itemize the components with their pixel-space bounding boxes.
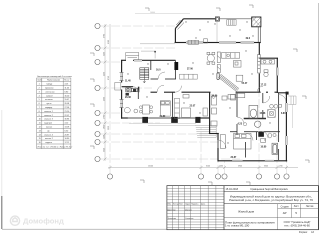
- svg-text:13: 13: [39, 130, 41, 132]
- stair newel pill: [217, 73, 219, 80]
- svg-text:4.23: 4.23: [238, 122, 243, 125]
- svg-text:прихожая: прихожая: [45, 88, 53, 90]
- svg-text:55.47: 55.47: [65, 99, 70, 101]
- svg-text:16: 16: [39, 142, 41, 144]
- svg-text:12: 12: [39, 127, 41, 129]
- main wall y=42.5: [175, 42, 261, 44]
- bottom bedroom bed: [234, 134, 252, 150]
- stage grid: [224, 204, 319, 230]
- row1 date/name: [226, 188, 289, 191]
- svg-text:Подпись: Подпись: [191, 204, 198, 206]
- bottom dimension ticks: [109, 166, 289, 169]
- shower: [268, 110, 276, 118]
- corner column SE of great room: [286, 92, 289, 95]
- svg-text:спальня 4: спальня 4: [44, 134, 53, 136]
- chimney block: [252, 17, 261, 27]
- svg-text:Савченко: Савченко: [185, 218, 193, 220]
- svg-text:7: 7: [39, 107, 40, 109]
- svg-text:Домофонд: Домофонд: [23, 217, 64, 226]
- left dimension texts: [104, 34, 110, 152]
- bottom wall windows: [128, 117, 196, 118]
- svg-text:Директор: Директор: [167, 209, 175, 211]
- wardrobe row in room 27.06: [180, 74, 198, 79]
- left wing top wall: [121, 59, 176, 61]
- svg-text:21.50: 21.50: [65, 111, 70, 113]
- svg-text:6.80: 6.80: [65, 91, 69, 93]
- svg-text:27.06: 27.06: [187, 69, 193, 71]
- svg-text:Формат: Формат: [299, 231, 308, 234]
- bedroom1 bed: [160, 101, 170, 116]
- svg-text:Листов: Листов: [306, 206, 314, 208]
- sofa along terrace wall: [188, 40, 199, 44]
- svg-text:14: 14: [39, 134, 41, 136]
- washing machine circle: [255, 121, 261, 127]
- svg-text:16.0: 16.0: [156, 70, 161, 72]
- left axis bubbles column: [95, 23, 100, 161]
- bottom dimension texts: [148, 166, 283, 168]
- Формат А3: [299, 231, 315, 234]
- svg-text:16.00: 16.00: [65, 95, 70, 97]
- lower bathroom basin: [261, 138, 266, 142]
- svg-text:14640: 14640: [150, 12, 155, 14]
- svg-text:11: 11: [39, 123, 41, 125]
- svg-text:спальня 3: спальня 3: [44, 119, 53, 121]
- lower wing right wall: [285, 93, 287, 162]
- room labels: [125, 37, 286, 159]
- corridor lower walls: bedroom divider: [138, 87, 172, 118]
- stair enclosure wall: [139, 60, 151, 92]
- svg-text:30.86: 30.86: [212, 96, 218, 98]
- left wall windows (thin): [120, 73, 124, 108]
- stamp header row text: [167, 203, 206, 220]
- kitchen room fixtures (26.08): [126, 88, 138, 92]
- bathroom right wall: [276, 58, 278, 93]
- left wing exterior: left wall: [121, 60, 123, 118]
- svg-text:1-го этажа М1:100: 1-го этажа М1:100: [225, 224, 250, 228]
- room 30.86 furniture: [211, 95, 236, 127]
- svg-text:Наименование: Наименование: [47, 80, 60, 82]
- svg-text:2: 2: [39, 88, 40, 90]
- bathroom top wall: [259, 57, 278, 59]
- svg-text:8: 8: [39, 111, 40, 113]
- porch steps right of bath wing: [288, 96, 296, 105]
- svg-text:Черных: Черных: [185, 209, 192, 211]
- svg-text:ванная 2: ванная 2: [45, 138, 53, 140]
- svg-text:гардероб: гардероб: [44, 123, 52, 125]
- svg-text:Стадия: Стадия: [281, 206, 290, 208]
- great room mid furniture: [236, 75, 243, 81]
- svg-text:тамбур: тамбур: [46, 84, 52, 86]
- stamp left grid horizontals: [167, 188, 224, 227]
- svg-text:Пл.,м²: Пл.,м²: [64, 79, 70, 82]
- svg-text:Лист: Лист: [179, 204, 183, 206]
- svg-text:АР: АР: [283, 211, 287, 215]
- svg-text:4.23: 4.23: [65, 84, 69, 86]
- svg-text:3780: 3780: [104, 34, 106, 38]
- bedroom3 furniture: [212, 95, 236, 115]
- lower wing bottom wall: [218, 160, 287, 162]
- svg-text:5940: 5940: [238, 166, 242, 168]
- svg-text:тел.: (043) 264-46-80: тел.: (043) 264-46-80: [284, 223, 310, 227]
- diamond vent symbol: [212, 95, 216, 98]
- kitchen tall cabinets band: [217, 52, 220, 73]
- svg-text:15: 15: [39, 138, 41, 140]
- svg-text:1760: 1760: [104, 115, 106, 119]
- lower bathroom dark flue: [258, 131, 264, 136]
- svg-text:4.20: 4.20: [65, 123, 69, 125]
- svg-text:Кравцышев Георгий Викторович: Кравцышев Георгий Викторович: [251, 188, 289, 191]
- svg-text:27.06: 27.06: [65, 107, 70, 109]
- svg-text:котельная: котельная: [46, 91, 55, 93]
- diagonal stair railing band: [218, 74, 239, 91]
- left dimension ticks: [104, 25, 107, 161]
- address block: [229, 194, 313, 202]
- svg-text:4490: 4490: [104, 72, 106, 76]
- bathtub (vertical): [249, 106, 258, 119]
- right/bottom section markers: [140, 49, 309, 185]
- corner fireplace hatch: [176, 20, 184, 30]
- svg-text:Кол.уч: Кол.уч: [173, 204, 179, 206]
- svg-text:с/у: с/у: [47, 130, 49, 132]
- upper terrace block: diagonal corner: [175, 19, 219, 43]
- svg-text:22.07: 22.07: [65, 115, 70, 117]
- svg-text:1: 1: [39, 84, 40, 86]
- svg-text:20.87: 20.87: [65, 134, 70, 136]
- svg-text:спальня 2: спальня 2: [44, 115, 53, 117]
- svg-text:49.6: 49.6: [246, 37, 251, 40]
- bedroom2 furniture: [182, 95, 208, 118]
- svg-text:26.08: 26.08: [65, 103, 70, 105]
- black flue stack: [174, 62, 178, 70]
- wall y=42.5 windows: [186, 42, 254, 43]
- kitchen table bottom: [124, 105, 152, 114]
- kitchen island: [234, 61, 242, 68]
- svg-text:5: 5: [39, 99, 40, 101]
- top dimension smudge: [135, 13, 190, 15]
- svg-text:9: 9: [39, 115, 40, 117]
- svg-text:1740: 1740: [279, 166, 283, 168]
- left wing bottom wall: [121, 117, 209, 119]
- svg-text:6.80: 6.80: [281, 113, 286, 115]
- terrace right boundary: [258, 27, 260, 43]
- svg-text:6.30: 6.30: [65, 130, 69, 132]
- svg-text:спальня 1: спальня 1: [44, 111, 53, 113]
- exterior steps hatch: [227, 20, 236, 26]
- bathroom top fixtures (washbasins): [261, 60, 275, 77]
- svg-text:коридор: коридор: [45, 107, 52, 109]
- svg-text:№п/п: №п/п: [38, 79, 43, 82]
- great room window in right wall: [258, 55, 261, 74]
- round dining table with chairs: [207, 52, 215, 64]
- svg-text:ванная: ванная: [46, 127, 52, 129]
- svg-text:Жилой дом: Жилой дом: [238, 210, 254, 214]
- entry canopy lines: [140, 44, 175, 59]
- svg-text:6: 6: [39, 103, 40, 105]
- svg-text:55.47: 55.47: [242, 82, 248, 85]
- jog wall y=133: [209, 133, 219, 135]
- svg-text:10.80: 10.80: [261, 146, 267, 148]
- svg-text:2940: 2940: [104, 148, 106, 152]
- top wall window: [134, 60, 142, 61]
- stamp left grid verticals: [173, 186, 224, 230]
- svg-text:3140: 3140: [206, 166, 210, 168]
- svg-text:13.28: 13.28: [65, 127, 70, 129]
- bottom bedroom wardrobe: [221, 135, 226, 149]
- svg-text:11.40: 11.40: [125, 80, 131, 83]
- svg-text:20.87: 20.87: [231, 157, 237, 159]
- right wall of great room continues down: [258, 74, 260, 93]
- svg-text:17.12: 17.12: [65, 142, 70, 144]
- porch edge line right: [292, 105, 294, 129]
- TV cabinet: [204, 39, 208, 43]
- bathroom right window: [277, 68, 278, 76]
- svg-text:Проверил: Проверил: [167, 218, 176, 220]
- door arcs: [133, 72, 286, 148]
- svg-text:№док: №док: [185, 203, 190, 206]
- svg-text:11.40: 11.40: [65, 88, 70, 90]
- porch above top wall: [126, 53, 139, 61]
- svg-text:1400: 1400: [104, 135, 106, 139]
- svg-text:1460: 1460: [219, 166, 223, 168]
- svg-text:15.38: 15.38: [260, 113, 266, 115]
- title right section divider: [223, 186, 225, 230]
- wardrobe next to bedroom: [175, 98, 180, 118]
- entry stoop outside left wall: [115, 83, 121, 91]
- svg-text:гостиная: гостиная: [45, 99, 53, 101]
- svg-text:26.08: 26.08: [125, 97, 131, 99]
- svg-text:1890: 1890: [104, 125, 106, 129]
- svg-text:Итого по 1 эт.: 294.04 м². Жил: Итого по 1 эт.: 294.04 м². Жилая 95.3 м²: [38, 145, 73, 148]
- room schedule table text: [38, 79, 73, 149]
- bottom wall pier blocks: [142, 117, 200, 123]
- svg-text:4300: 4300: [104, 97, 106, 101]
- room schedule table grid: [37, 78, 71, 149]
- desk along wall in hall: [236, 93, 245, 97]
- svg-text:5050: 5050: [108, 126, 110, 130]
- svg-text:15140: 15140: [148, 166, 153, 168]
- kitchen cabinet row along top wall: [222, 53, 240, 59]
- horizontal axis lines: [100, 26, 240, 159]
- bottom dimension line: [108, 167, 298, 169]
- top thin wall continuation: [220, 18, 253, 20]
- room 16.0 walls: [151, 60, 177, 79]
- corridor wall y=92: [122, 87, 289, 93]
- company cell: [284, 220, 311, 227]
- plan name: [225, 220, 275, 227]
- basin pair in bath: [270, 104, 282, 108]
- svg-text:3: 3: [39, 91, 40, 93]
- svg-text:22.07: 22.07: [190, 106, 196, 108]
- svg-text:10.80: 10.80: [65, 138, 70, 140]
- svg-text:Рамонский р-он, с.Богданово, у: Рамонский р-он, с.Богданово, ул.Серебрян…: [229, 198, 313, 202]
- central vertical wall x=209.6: [209, 92, 211, 133]
- svg-text:4: 4: [39, 95, 40, 97]
- svg-text:17.12: 17.12: [261, 85, 267, 87]
- title block outer: [167, 186, 319, 230]
- column at top wall: [215, 17, 219, 21]
- stair block next to room 11.40: [140, 68, 149, 83]
- svg-text:кухня: кухня: [47, 103, 52, 105]
- terrace edge lines below left wing: [129, 123, 196, 125]
- great room right wall: [258, 43, 260, 55]
- svg-text:30.86: 30.86: [65, 119, 70, 121]
- lower bathroom toilet: [268, 133, 276, 138]
- top section markers: [145, 5, 253, 11]
- svg-text:кабинет: кабинет: [46, 95, 53, 97]
- lower wing left wall: [217, 134, 219, 162]
- left vertical dimension line: [105, 24, 110, 161]
- left section markers: [90, 53, 94, 149]
- svg-text:10: 10: [39, 119, 41, 121]
- lower bathroom tub (vertical, right wall): [272, 143, 278, 154]
- terrace inner divider: [216, 21, 218, 42]
- svg-text:6180: 6180: [108, 40, 110, 44]
- svg-text:21.80: 21.80: [160, 116, 166, 118]
- watermark logo circle: [10, 216, 19, 225]
- svg-text:15.04.2018: 15.04.2018: [226, 188, 239, 191]
- svg-text:3340: 3340: [264, 166, 268, 168]
- svg-text:Экспликация помещений 1-го эта: Экспликация помещений 1-го этажа: [37, 75, 73, 78]
- vertical axis lines from bottom bubbles: [110, 92, 287, 174]
- svg-text:8790: 8790: [108, 76, 110, 80]
- corner garden stairs fan: [196, 126, 217, 138]
- bedroom3 / bath walls: [230, 93, 280, 160]
- scattered tiny symbols (sockets/notes): [127, 21, 270, 143]
- svg-text:терраса: терраса: [45, 142, 53, 144]
- bottom axis bubbles row: [107, 174, 289, 179]
- svg-text:2400: 2400: [104, 52, 106, 56]
